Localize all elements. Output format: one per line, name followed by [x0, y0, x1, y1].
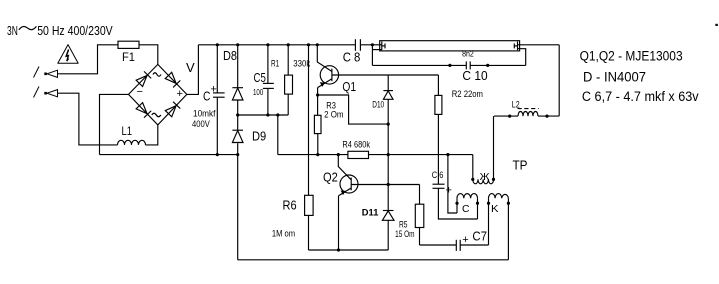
transformer winding K: [489, 194, 509, 199]
input terminal arrow 1: [47, 70, 60, 77]
capacitor C6: [433, 183, 445, 185]
svg-text:R6: R6: [283, 198, 297, 213]
svg-text:C: C: [203, 88, 210, 103]
wire input2 to L1: [60, 93, 118, 145]
svg-text:R1: R1: [271, 58, 279, 68]
svg-text:50 Hz 400/230V: 50 Hz 400/230V: [37, 23, 113, 38]
wire midpoint line to R4: [278, 154, 348, 156]
wire fuse to bridge top: [139, 45, 158, 65]
svg-text:−: −: [137, 86, 143, 98]
inductor L2: [538, 115, 559, 117]
svg-text:400V: 400V: [192, 119, 210, 129]
svg-text:2 Om: 2 Om: [324, 110, 343, 120]
wire bridge minus to left: [100, 94, 129, 154]
wire L2 down to winding G right: [493, 116, 495, 179]
capacitor C electrolytic 10mkf 400V: [216, 45, 218, 93]
artifact speck top-right: [715, 24, 718, 26]
bridge AC mark top: [153, 73, 161, 77]
capacitor C7: [420, 244, 457, 246]
svg-text:10mkf: 10mkf: [193, 108, 216, 118]
input terminal arrow 2: [47, 90, 60, 97]
transformer winding C: [457, 194, 477, 199]
wire bridge plus to top bus: [187, 45, 199, 95]
lamp right bottom pin: [518, 49, 526, 66]
wire D9 down to bottom bus: [237, 143, 239, 260]
lamp left bottom pin: [372, 49, 381, 51]
wire top bus B+: [198, 44, 355, 46]
wire emitter local bus y250: [309, 249, 389, 251]
diode D11: [382, 211, 394, 221]
svg-text:TP: TP: [513, 158, 528, 173]
svg-text:F1: F1: [122, 50, 135, 64]
input slash 2: [34, 87, 40, 98]
input slash 1: [34, 67, 40, 78]
resistor R1 330k: [287, 45, 289, 75]
svg-text:C5: C5: [254, 70, 266, 85]
svg-text:D10: D10: [372, 100, 384, 110]
svg-text:100: 100: [253, 87, 263, 97]
svg-text:L2: L2: [512, 100, 520, 110]
transformer winding G (lamp): [473, 179, 494, 183]
resistor R4 680k: [348, 151, 369, 158]
diode D8: [237, 45, 239, 88]
wire input1 to fuse: [60, 45, 119, 74]
bridge rectifier diamond: [129, 64, 187, 125]
resistor R3 2 Om: [317, 95, 319, 115]
svg-text:15 Om: 15 Om: [395, 229, 414, 239]
wire bottom bus: [238, 259, 509, 261]
svg-text:Ж: Ж: [480, 172, 491, 183]
svg-text:1M om: 1M om: [272, 229, 295, 239]
capacitor C5 100: [267, 45, 269, 84]
lamp right top pin wire: [518, 44, 560, 46]
svg-text:Q1: Q1: [342, 79, 356, 94]
wire right side down: [558, 45, 560, 116]
resistor R6 1M om: [308, 45, 310, 196]
bridge diode bottom-right: [165, 102, 180, 117]
diode D9: [237, 115, 239, 130]
resistor R2 22om: [437, 75, 439, 95]
capacitor C8: [354, 39, 356, 51]
wire corner down to winding G left: [472, 155, 474, 180]
fuse F1: [118, 41, 139, 48]
svg-text:D - IN4007: D - IN4007: [583, 69, 646, 84]
svg-text:Q2: Q2: [323, 169, 338, 184]
capacitor C10 8n2: [465, 61, 467, 69]
transistor Q1: [317, 45, 332, 72]
svg-text:330k: 330k: [293, 59, 310, 69]
lamp right filament: [517, 42, 519, 51]
wire C10 line left: [372, 64, 466, 66]
svg-text:3N: 3N: [7, 23, 18, 38]
svg-text:D8: D8: [223, 48, 237, 63]
svg-text:+: +: [462, 234, 468, 246]
wire node line y115: [238, 114, 289, 116]
transistor Q2: [338, 155, 351, 180]
svg-text:+: +: [210, 83, 216, 95]
lamp left filament: [381, 42, 383, 51]
svg-text:+: +: [177, 88, 183, 100]
bridge diode top-left: [136, 71, 151, 86]
svg-text:C: C: [462, 204, 470, 215]
wire branch y115 down to midpoint line: [277, 115, 279, 155]
lamp tube: [380, 41, 520, 51]
svg-text:R2 22om: R2 22om: [452, 89, 483, 99]
resistor R5 15 Om: [419, 185, 421, 205]
svg-text:C 6: C 6: [432, 170, 444, 180]
svg-text:D11: D11: [362, 208, 379, 218]
svg-text:D9: D9: [252, 129, 266, 144]
svg-text:+: +: [446, 185, 452, 197]
svg-text:Q1,Q2 - MJE13003: Q1,Q2 - MJE13003: [580, 49, 683, 64]
diode D10: [387, 75, 389, 91]
wire Q1 emitter to node X: [318, 95, 389, 124]
warning triangle with lightning bolt: [58, 45, 78, 64]
wire L1 to bridge bottom: [146, 125, 158, 145]
svg-text:C 6,7 - 4.7 mkf x 63v: C 6,7 - 4.7 mkf x 63v: [582, 89, 699, 104]
bridge diode top-right: [165, 72, 180, 87]
wire lamp left node down: [371, 45, 373, 66]
wire midpoint line left segment: [100, 154, 238, 156]
mains tilde symbol: [19, 26, 37, 29]
wire node X vertical: [387, 124, 389, 210]
svg-text:C7: C7: [472, 228, 487, 243]
svg-text:K: K: [491, 204, 499, 215]
bridge diode bottom-left: [136, 102, 151, 117]
svg-text:C 10: C 10: [462, 68, 487, 83]
svg-text:L1: L1: [122, 124, 133, 138]
bridge AC mark bottom: [152, 113, 161, 117]
svg-text:8n2: 8n2: [462, 50, 474, 59]
inductor L1: [118, 140, 146, 145]
wire winding C left jog to midpoint line: [448, 155, 457, 213]
svg-text:C 8: C 8: [343, 50, 361, 65]
svg-text:V: V: [186, 60, 195, 75]
svg-text:R4 680k: R4 680k: [342, 139, 370, 149]
svg-text:R5: R5: [399, 220, 408, 230]
